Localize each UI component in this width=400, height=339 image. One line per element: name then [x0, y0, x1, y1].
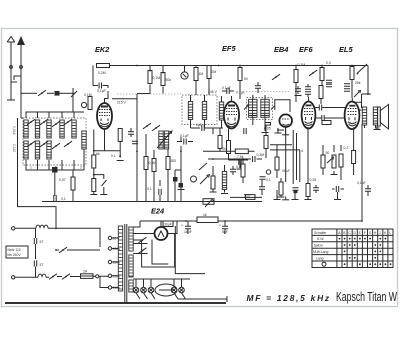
- capacitor C2: [54, 195, 56, 201]
- svg-text:2A: 2A: [83, 270, 88, 274]
- E24 wires: [133, 221, 177, 234]
- oscillator coil La: [159, 131, 163, 149]
- capacitor C10: [305, 92, 311, 94]
- ground T: [221, 193, 228, 195]
- svg-text:L: L: [389, 231, 391, 235]
- EB4 ground T1: [277, 129, 284, 131]
- svg-text:0,016: 0,016: [12, 126, 16, 135]
- capacitor C4: [159, 189, 161, 195]
- svg-text:4: 4: [301, 149, 303, 153]
- switch S8: [62, 274, 70, 280]
- IF transformer 1 dashed box: [182, 95, 217, 125]
- svg-text:0,25: 0,25: [310, 178, 317, 182]
- resistor R1 on bus: [97, 64, 110, 68]
- wire EB4 drops: [293, 130, 300, 184]
- svg-text:50: 50: [244, 77, 248, 81]
- svg-text:0,1: 0,1: [61, 197, 66, 201]
- svg-text:0,1µF: 0,1µF: [180, 134, 189, 138]
- jack circle: [181, 72, 188, 79]
- trimmer T1: [71, 88, 77, 100]
- mains top wire: [15, 227, 36, 229]
- svg-text:50µF: 50µF: [282, 169, 291, 173]
- capacitor C3: [128, 132, 134, 134]
- svg-text:0,2M: 0,2M: [98, 71, 106, 75]
- ground T: [334, 199, 341, 201]
- power transformer left winding: [118, 226, 122, 291]
- capacitor C11: [313, 188, 319, 190]
- capacitor C19: [253, 156, 255, 162]
- osc adjust arrow: [157, 131, 172, 148]
- svg-text:0,1M: 0,1M: [84, 93, 92, 97]
- oscillator switch Sa: [143, 123, 151, 129]
- capacitor C21: [260, 177, 266, 179]
- bus end drop: [362, 66, 371, 95]
- IF2 coil primary b: [253, 99, 257, 117]
- ground T: [282, 199, 289, 201]
- EL5 cathode resistor R20: [321, 155, 325, 168]
- svg-text:EK2: EK2: [95, 45, 110, 54]
- diode arrow 1: [244, 105, 249, 110]
- antenna A1: [7, 37, 15, 101]
- switch contacts in box: [27, 119, 35, 125]
- capacitor 0,1uF: [184, 139, 186, 145]
- wire antenna input: [21, 92, 37, 94]
- capacitor C18: [34, 261, 36, 267]
- EB4 grid wire: [275, 100, 290, 112]
- IF2 coil secondary b: [265, 99, 269, 117]
- svg-text:EF6: EF6: [299, 45, 313, 54]
- capacitor 8uF: [222, 226, 228, 228]
- svg-text:0,1µF: 0,1µF: [97, 89, 106, 93]
- padder capacitor blocks: [173, 177, 178, 182]
- svg-text:0,5M: 0,5M: [149, 161, 157, 165]
- IF1 coil primary: [188, 102, 192, 120]
- EF6 cathode resistor R18: [306, 184, 310, 197]
- ground T IF2: [262, 132, 269, 134]
- EF5 cathode resistor R13: [227, 141, 231, 154]
- IF2 wires: [253, 95, 265, 131]
- svg-text:J: J: [379, 231, 381, 235]
- resistor R6: [152, 159, 156, 172]
- ground T IF2a: [275, 132, 282, 134]
- resistor R17b: [319, 86, 323, 99]
- svg-text:G: G: [369, 231, 372, 235]
- resistor R14: [241, 164, 245, 177]
- potentiometer R21: [332, 155, 336, 168]
- svg-text:0,3M: 0,3M: [257, 153, 265, 157]
- bottom chassis line: [5, 302, 226, 304]
- svg-text:1k: 1k: [203, 213, 207, 217]
- switch S5a: [139, 237, 147, 243]
- capacitor C14: [344, 89, 350, 91]
- IF2 coil primary a: [249, 99, 253, 117]
- svg-text:EF5: EF5: [222, 44, 236, 53]
- svg-text:2: 2: [80, 166, 82, 170]
- svg-text:50: 50: [326, 151, 330, 155]
- capacitor C13: [344, 84, 350, 86]
- EB4 ground T2: [282, 134, 289, 136]
- choke coil bottom: [38, 274, 46, 277]
- wire k: [94, 130, 120, 151]
- svg-text:M.W.Lang: M.W.Lang: [313, 250, 328, 254]
- coil L1a: [24, 120, 28, 138]
- resistor R7: [166, 157, 170, 170]
- ground T: [117, 160, 124, 162]
- capacitor C7: [244, 195, 250, 197]
- lamp wires: [136, 279, 182, 287]
- svg-text:E24: E24: [151, 207, 164, 216]
- oscillator coil Lb: [164, 131, 168, 149]
- rectifier loop box: [133, 234, 174, 268]
- box label 30uF: [163, 221, 173, 227]
- EF5 tube: [224, 102, 239, 129]
- ground bus: [42, 201, 262, 203]
- svg-text:215 V: 215 V: [117, 101, 127, 105]
- capacitor C3b: [132, 141, 138, 143]
- lamp row: [133, 287, 139, 293]
- ground T: [210, 191, 217, 193]
- output transformer secondary: [373, 107, 377, 125]
- svg-text:8µF: 8µF: [222, 230, 228, 234]
- OT wires: [362, 94, 380, 128]
- svg-text:1µF: 1µF: [196, 123, 202, 127]
- svg-text:0,2M: 0,2M: [298, 63, 306, 67]
- resistor R17c: [322, 121, 331, 125]
- choke coil top: [36, 225, 48, 228]
- coil L8: [222, 172, 226, 190]
- capacitor C12b: [322, 115, 324, 121]
- capacitor C17: [34, 238, 36, 244]
- rectifier E24 tube: [155, 227, 168, 240]
- coil L6b: [219, 102, 223, 120]
- svg-text:0,110: 0,110: [12, 144, 16, 152]
- pot arrow 2: [199, 163, 207, 170]
- ground T: [237, 168, 244, 170]
- AVC dashed line: [117, 93, 182, 95]
- antenna A2: [17, 36, 25, 118]
- IF2 coil secondary a: [261, 99, 265, 117]
- resistor R17: [320, 68, 324, 81]
- coil L1b: [24, 141, 28, 159]
- EL5 tube: [345, 102, 360, 130]
- coupling capacitor C12: [319, 105, 321, 111]
- EF6 grid wire + caps: [308, 97, 310, 102]
- EK2 grid cap wire: [93, 86, 108, 104]
- svg-text:2M: 2M: [212, 70, 217, 74]
- EL5 grid cap wire: [351, 98, 353, 102]
- IF1 wires: [191, 95, 224, 128]
- svg-text:1M: 1M: [199, 72, 204, 76]
- switch S5b: [139, 248, 147, 254]
- coil L3a: [47, 120, 51, 138]
- coupling capacitor 1uF: [202, 125, 204, 131]
- switch S3: [309, 70, 317, 76]
- wire: [60, 92, 75, 94]
- band switch coil box: [23, 118, 86, 165]
- IF1 coil secondary: [202, 102, 206, 120]
- svg-text:2M: 2M: [223, 147, 228, 151]
- heater wire: [133, 278, 190, 280]
- box top feed wires: [26, 100, 84, 118]
- chassis jog wire: [18, 165, 57, 227]
- svg-text:25k: 25k: [355, 81, 361, 85]
- EB4 tube: [279, 114, 292, 127]
- svg-text:0,2: 0,2: [344, 146, 349, 150]
- svg-text:1: 1: [30, 166, 32, 170]
- svg-text:Spitze: Spitze: [314, 244, 324, 248]
- primary taps: [108, 236, 121, 290]
- ground T: [90, 194, 97, 196]
- resistor R19: [350, 67, 354, 80]
- mains terminal 1: [12, 227, 15, 230]
- capacitor Cg: [99, 83, 101, 89]
- resistor R16: [294, 70, 298, 83]
- heater return wire: [178, 296, 227, 302]
- switch S6: [59, 247, 67, 253]
- svg-text:+: +: [181, 224, 183, 228]
- wire AF line1: [203, 150, 255, 152]
- screen resistor R8: [148, 71, 152, 84]
- ground T: [178, 189, 185, 191]
- EK2 tube: [97, 103, 112, 129]
- svg-text:300: 300: [171, 159, 177, 163]
- capacitor 16uF: [185, 226, 191, 228]
- dial lamp oval: [155, 284, 177, 296]
- resistor on bus: [246, 195, 256, 200]
- EB4 bottom wire: [285, 127, 287, 200]
- ground T: [274, 199, 281, 201]
- mains terminal 2: [12, 276, 15, 279]
- wire: [92, 66, 94, 86]
- svg-text:F: F: [364, 231, 366, 235]
- svg-text:Kapsch Titan W: Kapsch Titan W: [336, 291, 397, 305]
- capacitor C24: [326, 84, 332, 86]
- svg-text:MF = 128,5 kHz: MF = 128,5 kHz: [247, 293, 331, 303]
- capacitor C22: [255, 86, 261, 88]
- svg-text:Lang: Lang: [316, 256, 324, 260]
- capacitor C8b: [293, 188, 299, 190]
- svg-text:0,1M: 0,1M: [153, 76, 161, 80]
- svg-text:0,1: 0,1: [147, 187, 152, 191]
- svg-text:+: +: [219, 224, 221, 228]
- capacitor C20: [230, 169, 236, 171]
- resistor R15b: [279, 182, 283, 195]
- grid arrow EL5: [354, 91, 361, 98]
- wire EK2 anode: [112, 94, 137, 202]
- oscillator switch Sb: [152, 125, 160, 131]
- resistor R10: [194, 68, 198, 81]
- box bottom wires: [26, 149, 84, 170]
- wire AF line2: [208, 158, 262, 160]
- coil L4: [60, 120, 64, 138]
- resistor 1k on rail: [197, 217, 218, 223]
- ground T speaker: [374, 129, 381, 131]
- mains label box: [6, 246, 28, 258]
- resistor R11: [207, 66, 211, 79]
- switch S7: [49, 274, 57, 280]
- coil L2a: [35, 120, 39, 138]
- svg-text:0,5: 0,5: [236, 165, 241, 169]
- wire: [93, 275, 96, 277]
- svg-text:5T: 5T: [40, 263, 44, 267]
- coil L2b: [35, 141, 39, 159]
- capacitor C9: [305, 87, 311, 89]
- wire coil box left: [18, 118, 24, 165]
- grid capacitor EF5: [227, 88, 229, 94]
- svg-text:0,1µF: 0,1µF: [222, 86, 231, 90]
- EK2 cathode resistor R3: [92, 155, 96, 168]
- EL5 anode wire: [352, 102, 361, 110]
- AVC dashed line 2: [246, 91, 289, 93]
- rail to riser: [133, 221, 362, 227]
- svg-text:0,1: 0,1: [266, 178, 271, 182]
- svg-text:0,57: 0,57: [59, 178, 66, 182]
- svg-text:0,1µF: 0,1µF: [357, 181, 366, 185]
- capacitor C15: [336, 186, 338, 192]
- IF transformer 2 dashed box: [247, 98, 273, 120]
- pot arrow 1: [200, 175, 210, 185]
- capacitor C23: [326, 80, 332, 82]
- right winding heater: [129, 255, 133, 277]
- wire padder down: [54, 173, 56, 197]
- components left of EK2: resistor R2: [88, 97, 92, 110]
- EF5 screen feed resistor R12: [238, 68, 242, 81]
- capacitor C25: [295, 89, 301, 91]
- resistor R21b: [339, 154, 343, 167]
- switch S10: [94, 175, 107, 194]
- resistor R23: [71, 177, 75, 190]
- svg-text:50k: 50k: [166, 78, 172, 82]
- resistor R22: [352, 151, 356, 164]
- rectifier loop wires: [133, 226, 205, 274]
- potentiometer on bus: [203, 199, 214, 205]
- diode arrow 2: [271, 106, 275, 110]
- speaker: [378, 105, 389, 130]
- capacitor C5: [239, 159, 241, 165]
- EF6 tube: [302, 102, 316, 129]
- table: [312, 229, 393, 268]
- svg-text:bis 240V: bis 240V: [8, 253, 22, 257]
- svg-text:0,1µF: 0,1µF: [236, 91, 245, 95]
- ground T: [305, 199, 312, 201]
- svg-text:EL5: EL5: [339, 45, 353, 54]
- capacitor C1: [55, 91, 60, 96]
- switch S4: [358, 64, 368, 73]
- svg-text:Netz 110: Netz 110: [8, 248, 21, 252]
- ground stub: [11, 76, 21, 82]
- svg-text:0,3: 0,3: [326, 61, 331, 65]
- wire: [48, 228, 100, 247]
- svg-text:K.W.: K.W.: [317, 237, 324, 241]
- resistor 7,5k: [235, 149, 248, 154]
- wire diode lines: [270, 145, 300, 150]
- wire y197: [230, 196, 262, 198]
- volume pot jack: [191, 176, 197, 182]
- right winding dial: [129, 280, 133, 292]
- wire: [93, 130, 95, 180]
- EF5 grid cap wire: [231, 96, 233, 102]
- capacitor C16: [365, 189, 371, 191]
- switch S1: [38, 90, 46, 96]
- diode load resistor R15: [275, 157, 279, 170]
- svg-text:Schalter: Schalter: [314, 231, 327, 235]
- circle meter: [81, 102, 86, 107]
- svg-text:0,05: 0,05: [264, 127, 271, 131]
- capacitor C8: [259, 187, 265, 189]
- B+ riser: [361, 124, 363, 221]
- right winding HT: [129, 227, 133, 251]
- coil L5: [72, 120, 76, 138]
- svg-text:EB4: EB4: [274, 45, 288, 54]
- coil L3b: [47, 141, 51, 159]
- switch S9: [272, 74, 280, 80]
- resistor R14c: [264, 136, 268, 149]
- coil L6: [82, 131, 86, 149]
- transformer to chassis: [125, 298, 127, 304]
- resistor R4: [118, 129, 122, 142]
- zigzag heater return: [136, 293, 186, 299]
- svg-text:30µF: 30µF: [164, 223, 172, 227]
- B+ top bus: [110, 65, 369, 67]
- capacitor C6b: [265, 123, 271, 126]
- svg-text:16µF: 16µF: [184, 230, 192, 234]
- mains bottom wire: [15, 276, 38, 278]
- svg-text:5T: 5T: [40, 240, 44, 244]
- wire: [46, 276, 80, 279]
- padder capacitor: [52, 167, 58, 173]
- wire: [47, 92, 54, 94]
- resistor R13b: [218, 136, 222, 149]
- resistor R3b: [92, 179, 96, 192]
- output transformer primary: [362, 107, 366, 125]
- capacitor C6: [244, 128, 246, 134]
- fuse F1: [81, 274, 94, 279]
- resistor R5: [144, 157, 148, 170]
- svg-text:6k: 6k: [96, 152, 100, 156]
- ground T: [292, 199, 299, 201]
- resistor R9: [161, 73, 165, 86]
- transformer core: [125, 224, 127, 298]
- svg-text:0,1: 0,1: [111, 154, 116, 158]
- pot resistor: [211, 176, 215, 189]
- jack circle 2: [266, 170, 270, 174]
